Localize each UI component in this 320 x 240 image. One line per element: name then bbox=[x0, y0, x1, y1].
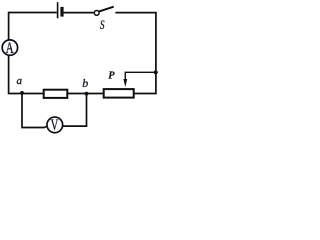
voltmeter circle bbox=[47, 117, 63, 133]
wire left side bottom (ammeter to corner a) bbox=[8, 56, 10, 95]
wire switch to top-right corner, down right side, into rheostat right terminal bbox=[115, 13, 155, 94]
wire left corner to resistor through node a bbox=[9, 93, 44, 95]
wire resistor to node b bbox=[67, 93, 86, 95]
battery cell: long thin plate bbox=[57, 2, 59, 18]
wire left side top (corner to ammeter) bbox=[8, 12, 10, 40]
svg-text:b: b bbox=[82, 76, 88, 90]
svg-text:P: P bbox=[108, 71, 115, 82]
wire node b to rheostat bbox=[87, 93, 104, 95]
svg-text:V: V bbox=[51, 116, 59, 133]
wire battery to switch bbox=[64, 12, 95, 14]
svg-text:S: S bbox=[100, 19, 105, 33]
ammeter circle bbox=[2, 40, 17, 55]
switch S: blade bbox=[99, 7, 114, 12]
rheostat P box bbox=[104, 89, 134, 98]
wire voltmeter up to node b bbox=[62, 94, 86, 126]
svg-text:a: a bbox=[17, 75, 23, 87]
node a dot bbox=[20, 91, 24, 95]
switch S: pivot circle bbox=[94, 11, 99, 16]
wire node a down to voltmeter bbox=[22, 93, 48, 128]
wiper arrowhead bbox=[123, 79, 127, 87]
resistor R box bbox=[44, 90, 68, 98]
junction node dot bbox=[154, 70, 158, 74]
node b dot bbox=[85, 92, 89, 96]
svg-text:A: A bbox=[6, 39, 14, 56]
battery cell: short thick plate bbox=[60, 7, 63, 17]
wire top-left (battery to top-left corner) bbox=[9, 12, 57, 14]
wire wiper branch from junction bbox=[125, 72, 156, 81]
